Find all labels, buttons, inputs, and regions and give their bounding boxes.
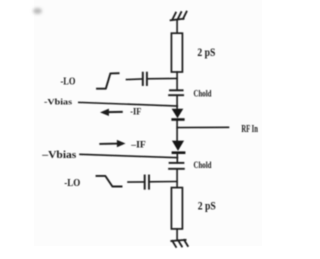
waveform symbol: LO rising edge [97,73,119,89]
arrow -IF (pointing right) [100,140,125,147]
wire: R2 bottom to ground [176,229,178,240]
svg-text:2 pS: 2 pS [198,201,216,213]
svg-text:2 pS: 2 pS [197,47,215,59]
wire: LO coupling (bottom) right segment to main line [149,181,177,183]
ground (bottom, chassis) [171,240,188,247]
diode D2 [172,141,186,154]
scanned page area tint [34,0,262,246]
svg-text:-Vbias: -Vbias [44,97,73,107]
wire: D2 to Chold2 [176,154,178,163]
capacitor C1 (LO coupling, top) [143,73,147,85]
svg-text:-LO: -LO [61,75,76,87]
wire: top ground to R1 [176,20,178,34]
diode D1 [171,109,184,121]
ground (top, chassis) [171,12,187,21]
wire: -Vbias (top) [79,102,178,106]
svg-text:RF In: RF In [241,124,258,135]
svg-text:-IF: -IF [130,107,141,117]
wire: RF input node [177,126,228,128]
wire: D1 to D2 [176,121,178,142]
capacitor Chold (top) [169,90,183,95]
svg-text:Chold: Chold [194,88,212,98]
waveform symbol: LO falling edge [97,176,122,187]
capacitor Chold (bottom) [169,163,184,169]
svg-text:–IF: –IF [130,140,146,150]
wire: Chold2 to R2 [176,169,178,188]
capacitor C2 (LO coupling, bottom) [145,176,149,189]
wire: R1 bottom to Chold1 [176,72,178,90]
svg-text:Chold: Chold [194,160,212,170]
wire: LO coupling (top) right segment to main line [147,77,177,79]
arrow -IF (pointing left) [101,109,122,115]
resistor R1 [171,33,182,72]
svg-text:-LO: -LO [64,178,80,189]
resistor R2 [171,188,182,229]
wire: Chold1 to D1 [176,95,178,110]
svg-text:–Vbias: –Vbias [41,150,76,161]
wire: -Vbias (bottom) [80,154,177,157]
wire: LO coupling (bottom) left segment [128,181,145,183]
wire: LO coupling (top) left segment [127,78,143,81]
scan smudge [33,8,42,14]
